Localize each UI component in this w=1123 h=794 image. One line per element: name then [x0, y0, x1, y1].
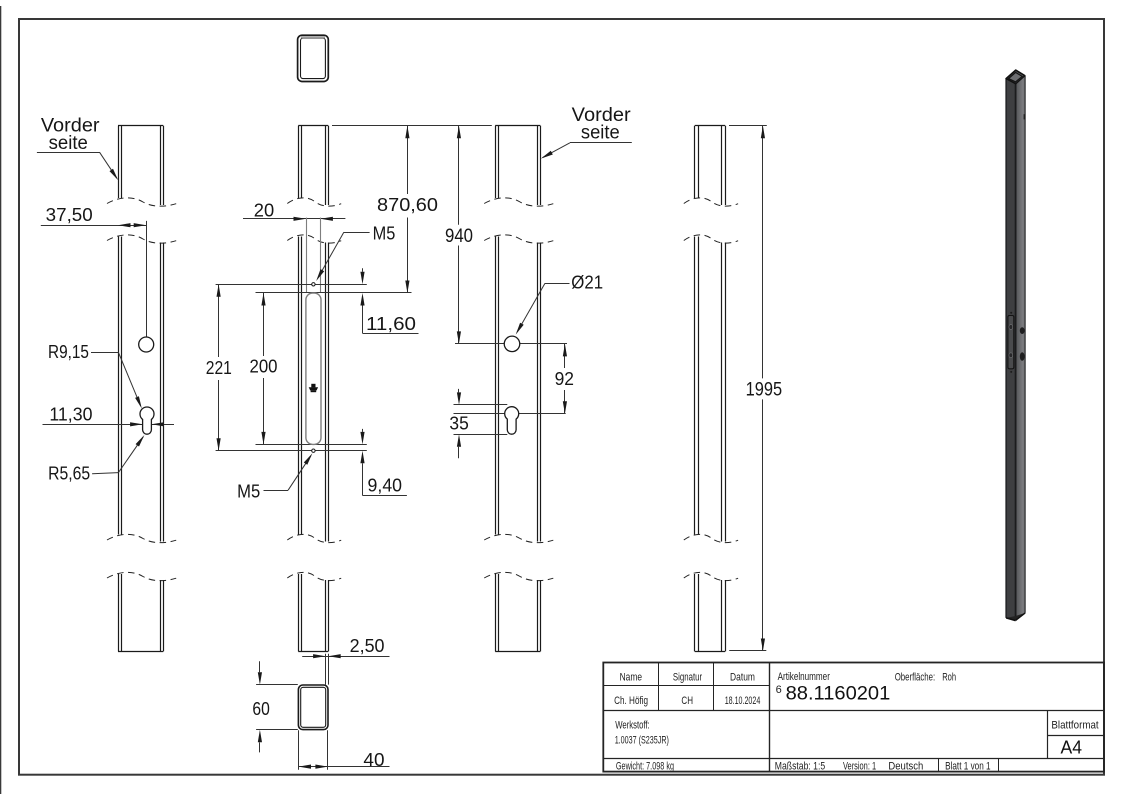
M5 hole bottom	[312, 449, 315, 452]
dimension 60	[252, 661, 297, 752]
view 3 column (side view with holes)	[484, 126, 553, 652]
svg-text:Name: Name	[620, 671, 642, 683]
svg-text:221: 221	[206, 358, 232, 378]
Ø21 center line	[455, 343, 567, 345]
cross section outline	[298, 685, 328, 730]
svg-text:Version: 1: Version: 1	[843, 760, 876, 772]
svg-text:18.10.2024: 18.10.2024	[725, 695, 761, 707]
label R5,65	[48, 435, 144, 484]
dimension 11,30	[43, 405, 175, 425]
svg-text:92: 92	[555, 369, 574, 389]
svg-text:R5,65: R5,65	[48, 464, 90, 484]
M5 hole top	[312, 283, 315, 286]
center of mass mark	[309, 384, 318, 392]
svg-text:200: 200	[250, 357, 278, 377]
tube top view	[298, 35, 329, 81]
svg-text:2,50: 2,50	[350, 636, 385, 656]
keyhole3 center line	[454, 413, 566, 415]
svg-text:Blattformat: Blattformat	[1051, 719, 1098, 731]
dimension 11,60	[360, 268, 418, 334]
svg-text:R9,15: R9,15	[48, 342, 89, 362]
label Ø21	[516, 272, 603, 334]
dimension 37,50	[41, 205, 147, 337]
dimension 20	[243, 200, 345, 221]
svg-text:Blatt 1 von 1: Blatt 1 von 1	[945, 760, 991, 772]
svg-text:seite: seite	[49, 133, 88, 154]
svg-text:35: 35	[449, 413, 468, 433]
dimension 870,60	[377, 126, 438, 293]
keyhole view3	[505, 407, 519, 435]
title block grid	[603, 663, 1104, 772]
slot edge extension lines	[306, 218, 308, 292]
extension line D bottom M5 center	[216, 450, 367, 452]
dimension 35	[449, 389, 468, 458]
svg-text:Roh: Roh	[942, 671, 956, 683]
svg-text:M5: M5	[373, 224, 396, 244]
svg-text:seite: seite	[581, 122, 620, 143]
slot view2	[306, 293, 321, 444]
svg-text:11,60: 11,60	[366, 314, 416, 334]
svg-text:M5: M5	[237, 481, 260, 501]
svg-text:1995: 1995	[746, 380, 783, 401]
keyhole view1	[140, 407, 154, 434]
svg-text:CH: CH	[681, 695, 693, 707]
extension line B slot top	[256, 292, 412, 294]
view 2 column (front view)	[287, 126, 341, 652]
svg-text:20: 20	[254, 200, 274, 220]
hole Ø21	[504, 336, 520, 352]
svg-text:A4: A4	[1061, 737, 1083, 758]
dimension 1995	[729, 126, 782, 652]
label R9,15	[48, 342, 142, 408]
label Vorderseite view1	[37, 116, 118, 181]
dimension 200	[250, 293, 278, 444]
dimension 40	[299, 730, 390, 770]
svg-text:Werkstoff:: Werkstoff:	[615, 720, 650, 732]
dimension 940	[445, 126, 473, 344]
svg-text:870,60: 870,60	[377, 195, 438, 215]
keyhole3 top extension	[454, 404, 508, 406]
svg-text:Ch. Höfig: Ch. Höfig	[614, 695, 648, 707]
svg-text:Deutsch: Deutsch	[888, 760, 923, 772]
dimension 92	[555, 344, 574, 414]
view 1 column (left side view)	[107, 126, 176, 652]
label M5 top	[316, 224, 395, 282]
page left edge	[0, 6, 2, 794]
svg-text:Signatur: Signatur	[673, 671, 702, 683]
svg-text:Oberfläche:: Oberfläche:	[895, 671, 936, 683]
svg-text:6: 6	[776, 684, 782, 696]
view 4 column (overall length view)	[684, 126, 738, 652]
svg-text:37,50: 37,50	[46, 205, 93, 225]
svg-text:Gewicht: 7.098 kg: Gewicht: 7.098 kg	[616, 760, 674, 772]
label M5 bottom	[237, 453, 312, 501]
extension line C slot bottom	[256, 444, 367, 446]
hole circle view1	[139, 337, 154, 352]
keyhole3 bottom extension	[454, 434, 508, 436]
arrows 11,30	[130, 422, 143, 426]
svg-text:1.0037 (S235JR): 1.0037 (S235JR)	[615, 734, 669, 746]
3d post	[1006, 70, 1025, 621]
svg-text:11,30: 11,30	[49, 405, 92, 425]
label Vorderseite view3	[541, 105, 632, 159]
svg-text:Maßstab: 1:5: Maßstab: 1:5	[775, 760, 825, 772]
dimension 221	[206, 284, 232, 450]
svg-text:9,40: 9,40	[368, 475, 403, 495]
top extension line	[332, 125, 492, 127]
3d post slot plate	[1008, 312, 1014, 373]
3d post right face holes	[1020, 114, 1025, 361]
svg-text:940: 940	[445, 226, 473, 247]
svg-text:Datum: Datum	[730, 671, 755, 683]
extension line A top M5 center	[216, 284, 367, 286]
dimension 9,40	[360, 429, 407, 496]
svg-text:Ø21: Ø21	[571, 272, 603, 292]
svg-text:60: 60	[252, 699, 269, 719]
svg-text:88.1160201: 88.1160201	[786, 682, 891, 704]
svg-text:Artikelnummer: Artikelnummer	[778, 671, 831, 683]
dimension 2,50	[302, 636, 389, 685]
